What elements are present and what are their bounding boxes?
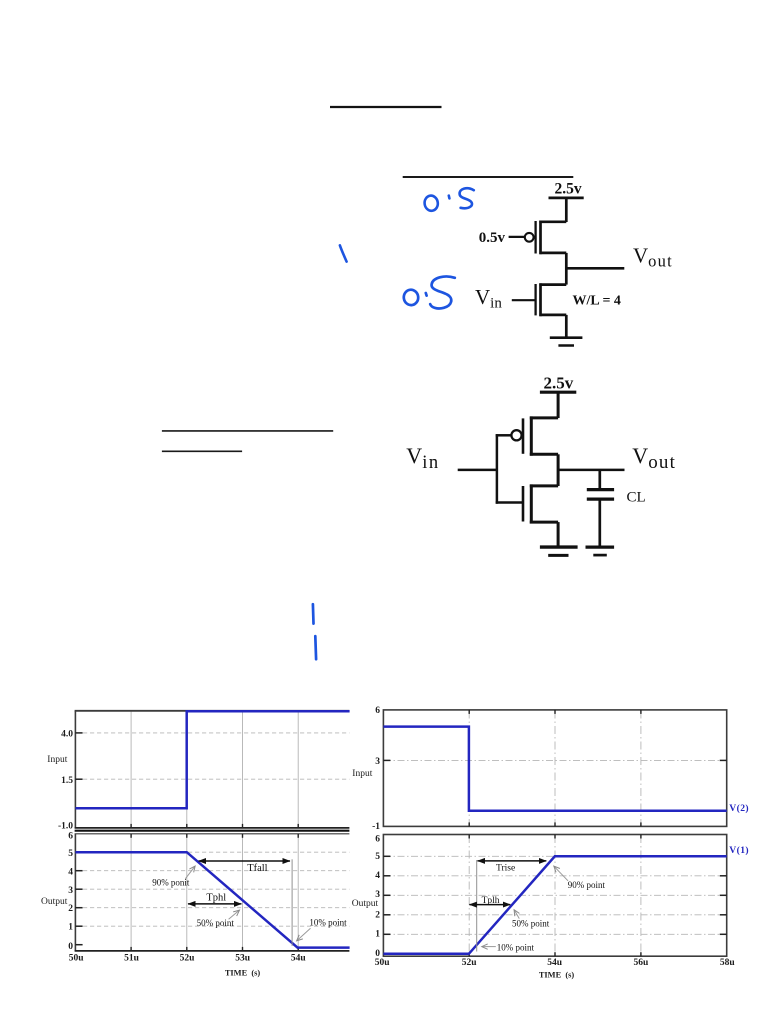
pmos M3 [496,416,558,455]
svg-text:54u: 54u [291,953,307,963]
right plot: 10% leader arrow [482,946,496,948]
svg-text:1: 1 [68,922,73,932]
right plot: input waveform V(2) [383,727,726,811]
svg-text:Vin: Vin [406,443,439,473]
left plot: y labels bottom panel [68,831,73,951]
svg-text:50% point: 50% point [512,919,550,929]
svg-text:58u: 58u [720,958,736,968]
svg-text:6: 6 [375,706,380,716]
svg-text:CL: CL [627,489,646,505]
right plot: x ticks [469,710,641,956]
right plot: y labels top panel [372,706,380,832]
svg-text:Input: Input [352,769,372,779]
right plot: output waveform V(1) [383,856,726,954]
left plot: top panel frame [75,711,350,828]
svg-text:51u: 51u [124,953,140,963]
svg-text:6: 6 [375,834,380,844]
right plot: Trise arrow [478,860,547,862]
svg-text:0: 0 [68,942,73,952]
right plot: 50% leader arrow [514,910,519,919]
svg-text:Vout: Vout [633,244,673,271]
handwritten vertical stroke 1 (blue) [312,604,315,623]
right plot: Tplh arrow [469,904,510,906]
right plot: vertical gridlines top panel [469,711,641,826]
nmos M4 [523,484,558,523]
svg-text:Output: Output [352,899,379,909]
svg-text:W/L = 4: W/L = 4 [573,294,621,309]
svg-text:56u: 56u [634,958,650,968]
rule line 1 (left of circuit 2) [162,430,333,432]
right plot: y labels bottom panel [375,834,380,958]
wire VDD to PMOS source circuit 2 [557,392,560,418]
left plot: 10% marker vertical line [291,859,293,946]
svg-text:Tfall: Tfall [247,863,267,874]
wire: rule above circuit 1 [403,176,574,178]
svg-text:Input: Input [47,755,67,765]
left plot: Tfall arrow [199,860,291,862]
svg-text:52u: 52u [180,953,196,963]
left plot: y labels top panel [58,730,73,832]
left plot: dashed horizontal gridlines top panel [76,733,349,779]
svg-text:1: 1 [375,930,380,940]
left plot: vertical gridlines bottom panel [131,834,298,950]
svg-text:54u: 54u [547,958,563,968]
ground circuit 1 [550,336,583,339]
svg-text:4: 4 [375,871,380,881]
svg-text:4.0: 4.0 [61,730,73,740]
svg-text:3: 3 [68,886,73,896]
wire VDD to PMOS source [565,198,568,222]
right plot: dashed horizontal gridline top panel (3V) [384,759,727,761]
svg-text:52u: 52u [462,958,478,968]
left plot: 10% leader arrow [297,928,311,940]
left plot: y ticks [75,733,82,945]
ground NMOS circuit 2 [540,545,578,548]
wire output node to Vout circuit 1 [566,267,624,270]
svg-text:-1.0: -1.0 [58,822,73,832]
right plot: top panel frame [383,710,726,827]
svg-text:3: 3 [375,757,380,767]
left plot: 50% leader arrow [229,910,240,919]
svg-text:-1: -1 [372,822,380,832]
left plot: Tphl arrow [188,903,241,905]
svg-text:5: 5 [375,852,380,862]
capacitor CL [587,470,614,547]
right plot: x labels [375,958,736,968]
svg-text:TIME (s): TIME (s) [225,968,261,977]
svg-text:50u: 50u [375,958,391,968]
svg-text:4: 4 [68,868,73,878]
svg-text:50u: 50u [69,953,85,963]
svg-text:53u: 53u [235,953,251,963]
svg-text:90% point: 90% point [568,880,606,890]
left plot: heavy divider line [75,830,350,832]
left plot: dashed horizontal gridlines bottom panel [76,852,349,926]
title underline [330,106,442,108]
svg-text:V(1): V(1) [729,845,749,856]
right plot: y ticks bottom panel [383,856,726,934]
svg-text:50% point: 50% point [197,918,235,928]
svg-text:V(2): V(2) [729,803,749,814]
ground CL [586,545,615,548]
right plot: vertical gridlines bottom panel [469,835,641,956]
left plot: bottom panel frame [75,834,350,951]
svg-text:Tphl: Tphl [206,893,226,904]
left plot: output waveform [75,852,349,947]
svg-text:Trise: Trise [496,863,515,873]
svg-text:5: 5 [68,849,73,859]
svg-text:10% point: 10% point [497,943,535,953]
svg-text:2.5v: 2.5v [555,181,582,198]
wire PMOS drain to NMOS drain circuit 2 [557,454,560,486]
svg-text:10% point: 10% point [309,918,347,928]
wire NMOS gate horizontal circuit 2 [496,501,523,504]
right plot: 90% leader arrow [554,866,568,881]
wire NMOS source to ground [565,315,568,338]
pmos M1 [509,221,567,255]
svg-text:1.5: 1.5 [61,776,73,786]
svg-text:6: 6 [68,831,73,841]
right plot: bottom panel frame [383,835,726,957]
left plot: input waveform [75,711,349,808]
svg-text:2.5v: 2.5v [544,373,574,392]
svg-text:TIME (s): TIME (s) [539,970,575,979]
svg-text:90% ponit: 90% ponit [152,877,190,887]
left plot: 90% leader arrow [185,866,195,879]
handwritten tick stroke (blue) [340,245,347,261]
left plot: vertical gridlines top panel [131,712,298,828]
svg-text:Vin: Vin [475,285,502,312]
left plot: x ticks [131,824,298,951]
right plot: 10% marker vertical line [476,860,478,952]
svg-text:0.5v: 0.5v [479,230,506,246]
wire output circuit 2 [558,469,624,472]
right plot: dashed horizontal gridlines bottom panel [384,856,727,934]
handwritten 0.5 upper (blue) [424,188,474,211]
svg-text:Output: Output [41,897,68,907]
wire NMOS source to ground circuit 2 [557,522,560,547]
nmos M2 [512,283,567,316]
handwritten 0.5 lower (blue) [403,277,455,309]
rule line 2 (left of circuit 2) [162,450,242,452]
handwritten vertical stroke 2 (blue) [314,636,318,659]
svg-text:Vout: Vout [632,443,676,473]
wire gate vertical circuit 2 [496,434,499,504]
left plot: x labels [69,953,307,963]
svg-text:2: 2 [68,904,73,914]
VDD supply bar circuit 1 [549,197,584,200]
right plot: y ticks top panel [383,759,726,761]
svg-text:2: 2 [375,911,380,921]
wire Vin circuit 2 [458,469,497,472]
VDD supply bar circuit 2 [540,391,576,394]
wire PMOS drain / NMOS drain vertical [565,253,568,285]
